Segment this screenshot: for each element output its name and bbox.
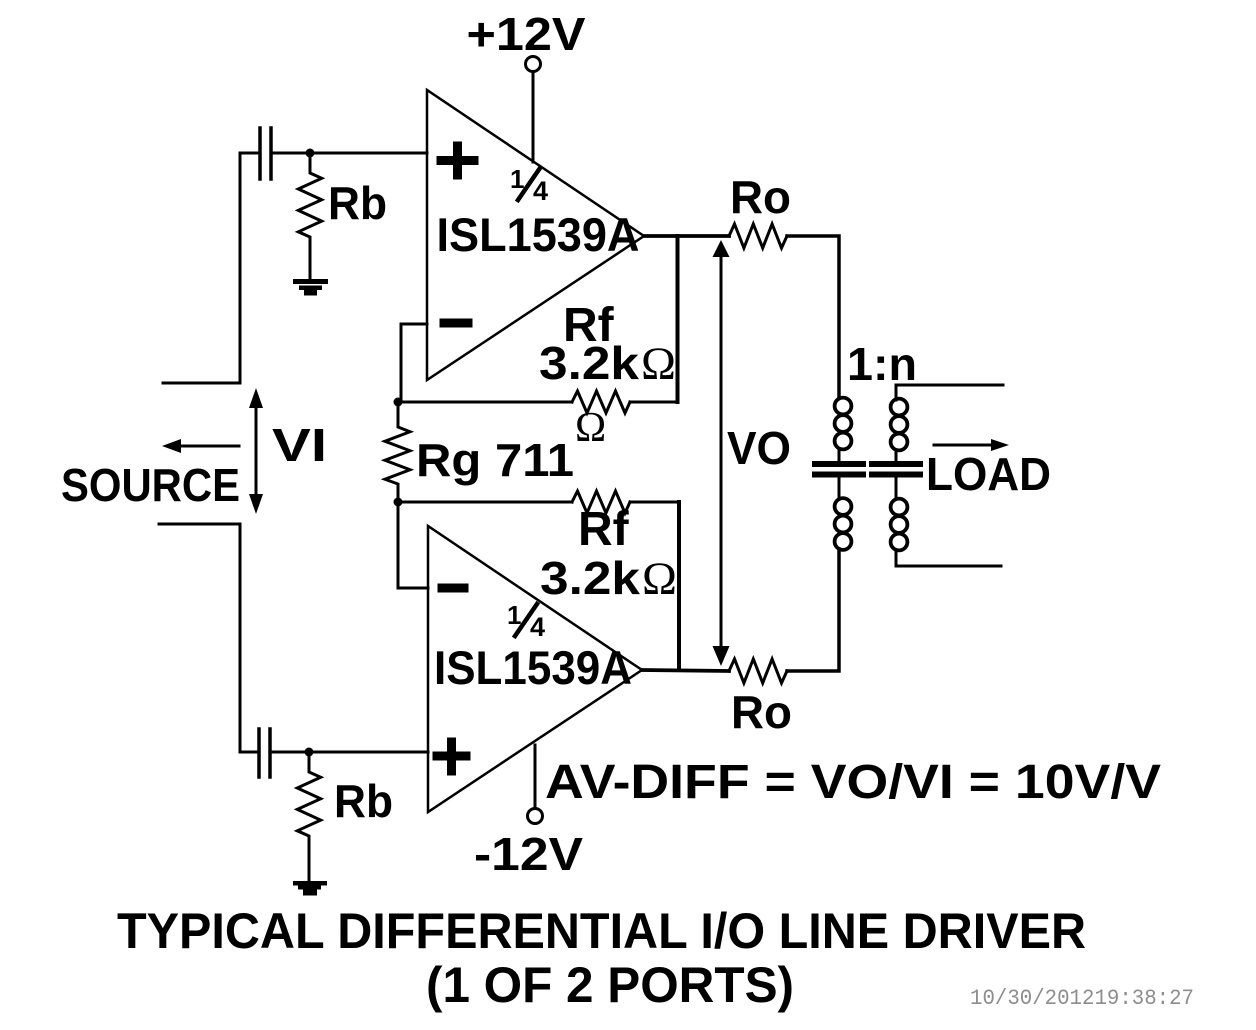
transformer T1 secondary winding bottom	[891, 499, 908, 551]
node C junction dot	[394, 398, 403, 407]
wire U2 output	[642, 670, 729, 671]
op-amp U1 minus sign	[444, 319, 468, 328]
svg-text:Rf: Rf	[578, 503, 630, 556]
transformer T1 core bars left	[815, 464, 863, 475]
wire U2 -input	[398, 502, 428, 588]
wire Rf1 right	[630, 401, 677, 404]
resistor Rg	[385, 402, 410, 502]
wire U2 +input	[273, 751, 428, 754]
wire Rf2 right	[630, 501, 679, 504]
svg-text:Rb: Rb	[328, 177, 387, 229]
node D junction dot	[394, 498, 403, 507]
resistor Rf1	[572, 391, 630, 413]
capacitor C1	[260, 128, 271, 179]
resistor Ro2	[729, 659, 787, 683]
wire Ro1 to transformer	[787, 236, 839, 398]
svg-text:Ω: Ω	[641, 338, 676, 390]
svg-text:LOAD: LOAD	[926, 448, 1051, 500]
svg-text:Ro: Ro	[731, 686, 792, 738]
svg-text:(1 OF 2 PORTS): (1 OF 2 PORTS)	[426, 957, 794, 1013]
terminal -12V circle	[528, 809, 543, 824]
source bottom stub	[159, 523, 240, 526]
wire left vertical lower	[239, 524, 242, 752]
wire U2 power pin	[534, 745, 537, 808]
op-amp U1 triangle	[427, 90, 644, 380]
wire Rf2 feedback vertical	[677, 502, 681, 670]
svg-text:+12V: +12V	[467, 8, 586, 60]
transformer T1 secondary winding top	[891, 399, 908, 451]
svg-text:1: 1	[507, 600, 521, 630]
transformer T1 core bars right	[872, 464, 920, 475]
svg-text:1: 1	[510, 164, 524, 194]
op-amp U2 plus sign	[437, 742, 466, 771]
svg-text:ISL1539A: ISL1539A	[437, 208, 640, 261]
wire source bottom to C2	[240, 751, 256, 754]
transformer T1 primary winding top	[835, 398, 852, 450]
ground top	[293, 279, 328, 296]
svg-text:1:n: 1:n	[847, 338, 917, 390]
source top stub	[163, 382, 240, 385]
op-amp U2 minus sign	[442, 584, 464, 593]
transformer T1 primary winding bottom	[835, 498, 852, 550]
ground bottom	[293, 881, 327, 896]
svg-text:-12V: -12V	[474, 828, 583, 880]
arrow source left	[176, 445, 239, 448]
arrow LOAD	[934, 444, 1000, 447]
node B junction dot	[305, 748, 314, 757]
transformer T1 secondary top wire	[896, 385, 1003, 400]
svg-text:3.2k: 3.2k	[539, 337, 639, 389]
wire left vertical upper	[239, 153, 242, 383]
wire Rf2 left	[398, 501, 572, 504]
op-amp U1 1/4 label	[510, 164, 548, 206]
arrow VO double vertical	[720, 250, 723, 650]
terminal +12V circle	[526, 57, 541, 72]
svg-text:VI: VI	[272, 419, 327, 471]
transformer T1 primary stub	[838, 449, 841, 499]
svg-text:AV-DIFF = VO/VI = 10V/V: AV-DIFF = VO/VI = 10V/V	[545, 756, 1161, 809]
svg-text:Ω: Ω	[575, 405, 606, 451]
svg-text:4: 4	[533, 176, 548, 206]
wire Rf1 feedback vertical	[676, 236, 680, 402]
op-amp U2 triangle	[428, 526, 642, 812]
svg-text:TYPICAL DIFFERENTIAL I/O LINE: TYPICAL DIFFERENTIAL I/O LINE DRIVER	[117, 903, 1086, 959]
svg-text:VO: VO	[727, 422, 791, 474]
svg-text:SOURCE: SOURCE	[61, 459, 240, 511]
op-amp U1 plus sign	[441, 146, 474, 175]
wire +12V to op-amp U1	[532, 72, 535, 162]
svg-text:Ω: Ω	[642, 553, 677, 605]
node A junction dot	[306, 149, 315, 158]
svg-text:4: 4	[530, 612, 545, 642]
wire U1 -input	[401, 324, 427, 402]
resistor Rf2	[572, 491, 630, 513]
resistor Ro1	[729, 224, 787, 248]
svg-text:Ro: Ro	[730, 171, 791, 223]
svg-text:3.2k: 3.2k	[540, 552, 640, 604]
wire U1 +input	[274, 152, 427, 155]
wire U1 output	[644, 234, 729, 238]
transformer T1 secondary bottom wire	[896, 550, 1001, 566]
svg-text:ISL1539A: ISL1539A	[434, 641, 632, 694]
resistor Rb bottom	[297, 752, 320, 881]
capacitor C2	[259, 729, 270, 777]
resistor Rb top	[298, 153, 321, 279]
op-amp U2 1/4 label	[507, 600, 545, 642]
transformer T1 secondary stub	[895, 450, 898, 499]
svg-text:10/30/201219:38:27: 10/30/201219:38:27	[970, 986, 1194, 1011]
svg-text:Rg 711: Rg 711	[416, 434, 574, 486]
svg-text:Rb: Rb	[334, 775, 393, 827]
wire Rf1 left	[398, 401, 572, 404]
wire Ro2 to transformer	[787, 549, 839, 671]
arrow VI vertical double	[255, 400, 258, 502]
wire source top to C1	[240, 152, 257, 155]
